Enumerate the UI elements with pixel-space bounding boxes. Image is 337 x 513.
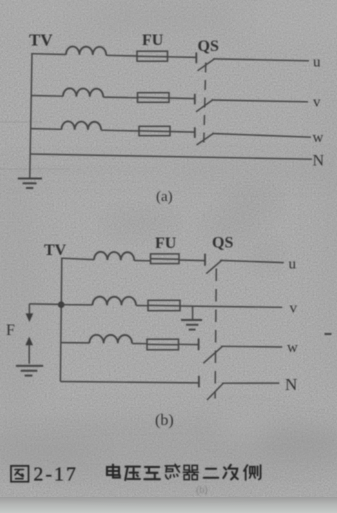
fuse FU phase w (b) bbox=[147, 339, 179, 350]
page edge dash right bbox=[325, 333, 332, 335]
ground tap after fuse v (b) bbox=[192, 306, 194, 320]
svg-text:v: v bbox=[290, 301, 298, 317]
fuse FU phase w (a) bbox=[139, 126, 170, 135]
wire u3 (a) bbox=[168, 56, 197, 59]
switch QS contact phase w (b) bbox=[198, 338, 200, 350]
svg-text:TV: TV bbox=[29, 31, 53, 50]
wire w3 (b) bbox=[179, 343, 199, 345]
wire v1 (b) bbox=[61, 304, 92, 306]
wire v3 (a) bbox=[169, 97, 195, 100]
node junction dot (b) bbox=[58, 301, 65, 308]
svg-text:u: u bbox=[289, 257, 297, 273]
wire w2 (b) bbox=[132, 343, 147, 345]
hanzi 感 bbox=[165, 464, 179, 479]
svg-text:2-17: 2-17 bbox=[34, 465, 79, 486]
wire F horizontal (b) bbox=[29, 303, 61, 306]
wire u3 (b) bbox=[179, 259, 205, 262]
switch QS blade phase N (b) bbox=[207, 383, 223, 400]
wire u2 (b) bbox=[134, 260, 150, 262]
wire w1 (a) bbox=[31, 128, 62, 131]
wire v4 (a) bbox=[212, 100, 309, 102]
svg-text:FU: FU bbox=[142, 32, 164, 49]
wire v1 (a) bbox=[31, 95, 63, 98]
hanzi 二 bbox=[204, 469, 219, 478]
bus wire (a) left vertical bbox=[30, 53, 32, 178]
discharge gap F lower arrow (b) bbox=[25, 337, 33, 346]
wire u2 (a) bbox=[106, 54, 137, 57]
wire N (a) bbox=[30, 154, 312, 159]
switch QS contact phase u (a) bbox=[195, 52, 197, 63]
svg-text:TV: TV bbox=[44, 242, 67, 259]
hanzi 图 bbox=[11, 466, 29, 482]
switch QS blade phase u (b) bbox=[206, 260, 221, 273]
hanzi 侧 bbox=[244, 465, 261, 480]
wire N (b) bbox=[60, 382, 198, 383]
svg-text:(b): (b) bbox=[196, 485, 208, 496]
caption hanzi hand-drawn bbox=[11, 464, 261, 481]
svg-text:QS: QS bbox=[198, 38, 219, 55]
hanzi 压 bbox=[125, 467, 140, 480]
svg-text:FU: FU bbox=[155, 235, 177, 252]
hanzi 互 bbox=[144, 467, 160, 479]
svg-text:N: N bbox=[313, 153, 325, 170]
svg-text:F: F bbox=[6, 322, 15, 339]
winding TV phase u (a) bbox=[66, 47, 106, 56]
switch QS linkage dashed (a) bbox=[204, 63, 206, 151]
switch QS linkage dashed (b) bbox=[215, 269, 216, 399]
svg-text:(a): (a) bbox=[156, 189, 173, 205]
discharge gap F upper arrow (b) bbox=[28, 304, 30, 314]
switch QS contact phase w (a) bbox=[194, 127, 196, 138]
fuse FU phase v (a) bbox=[138, 93, 170, 103]
hanzi 器 bbox=[183, 465, 198, 479]
wire u4 (b) bbox=[220, 260, 284, 262]
svg-text:v: v bbox=[313, 95, 321, 111]
wire v2 (a) bbox=[103, 96, 137, 99]
wire w4 (b) bbox=[221, 345, 282, 348]
svg-text:w: w bbox=[287, 340, 298, 356]
winding TV phase v (b) bbox=[93, 297, 137, 306]
winding TV phase v (a) bbox=[63, 88, 103, 97]
bus wire (b) left vertical bbox=[60, 258, 61, 382]
ground (a) bbox=[18, 179, 42, 189]
wire v3 (b) bbox=[180, 306, 282, 307]
wire u1 (a) bbox=[31, 53, 66, 56]
faint bleedthrough marks bbox=[110, 196, 280, 261]
bottom page edge strip bbox=[0, 497, 337, 513]
switch QS contact phase u (b) bbox=[204, 254, 206, 266]
fuse FU phase v (b) bbox=[148, 300, 180, 310]
wire w3 (a) bbox=[170, 131, 195, 134]
caption 图 2-17 bbox=[34, 465, 79, 486]
wire u1 (b) bbox=[61, 258, 94, 259]
wire w2 (a) bbox=[101, 129, 139, 132]
wire w1 (b) bbox=[61, 342, 89, 344]
hanzi 电 bbox=[107, 465, 120, 478]
svg-text:(b): (b) bbox=[155, 412, 174, 429]
wire u4 (a) bbox=[213, 59, 309, 61]
switch QS blade phase u (a) bbox=[198, 59, 215, 71]
switch QS blade phase w (a) bbox=[197, 133, 214, 145]
svg-text:QS: QS bbox=[212, 235, 233, 252]
svg-text:N: N bbox=[285, 375, 297, 394]
winding TV phase w (b) bbox=[89, 335, 132, 344]
svg-text:u: u bbox=[313, 55, 321, 71]
switch QS blade phase v (a) bbox=[196, 100, 213, 112]
switch QS contact phase v (a) bbox=[194, 94, 196, 105]
wire w4 (a) bbox=[212, 134, 311, 138]
wire N2 (b) bbox=[222, 382, 279, 384]
svg-text:w: w bbox=[313, 130, 324, 146]
ground F (b) bbox=[16, 366, 43, 376]
fuse FU phase u (b) bbox=[151, 254, 180, 264]
switch QS contact phase N (b) bbox=[198, 376, 200, 388]
faint crease left bbox=[0, 121, 42, 123]
hanzi 次 bbox=[223, 465, 237, 480]
wire v2 (b) bbox=[136, 305, 148, 307]
switch QS blade phase w (b) bbox=[203, 346, 222, 363]
fuse FU phase u (a) bbox=[137, 51, 168, 61]
winding TV phase w (a) bbox=[62, 121, 102, 130]
winding TV phase u (b) bbox=[94, 252, 134, 261]
